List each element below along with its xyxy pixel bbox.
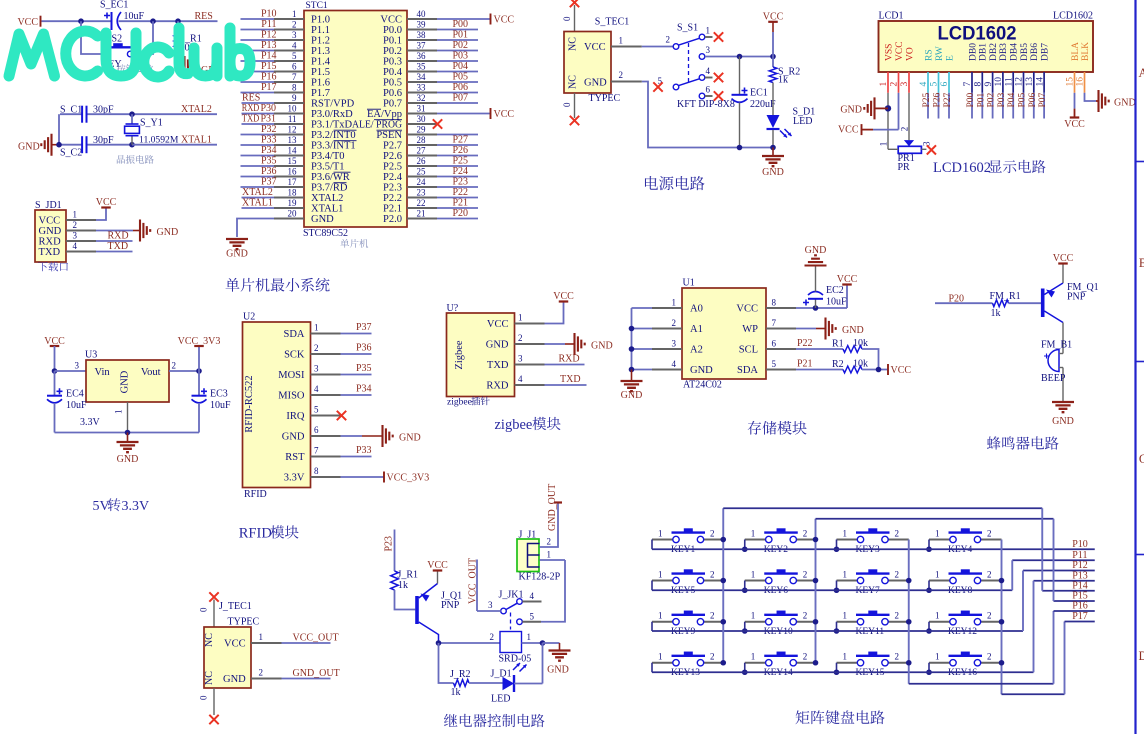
svg-text:LCD1602: LCD1602 (938, 24, 1017, 45)
svg-text:EA/Vpp: EA/Vpp (367, 109, 402, 120)
svg-text:DB1: DB1 (979, 43, 989, 61)
svg-text:P3.3/INT1: P3.3/INT1 (311, 141, 356, 152)
svg-text:VCC: VCC (224, 639, 246, 650)
svg-text:P0.3: P0.3 (383, 57, 402, 68)
svg-text:P2.1: P2.1 (383, 204, 402, 215)
svg-text:P02: P02 (452, 40, 468, 51)
svg-text:1: 1 (751, 611, 756, 621)
svg-text:26: 26 (417, 156, 427, 166)
svg-text:4: 4 (292, 40, 297, 50)
svg-text:3: 3 (73, 231, 78, 241)
svg-text:GND: GND (117, 454, 139, 465)
svg-text:P25: P25 (452, 156, 468, 167)
svg-text:14: 14 (288, 145, 298, 155)
svg-text:9: 9 (292, 93, 297, 103)
svg-text:B: B (1139, 256, 1144, 270)
svg-text:1k: 1k (451, 687, 461, 698)
svg-text:1: 1 (314, 323, 319, 333)
svg-text:1: 1 (878, 142, 888, 147)
svg-text:P2.0: P2.0 (383, 214, 402, 225)
svg-text:2: 2 (987, 611, 992, 621)
svg-text:P36: P36 (356, 343, 372, 354)
svg-text:VCC: VCC (736, 304, 758, 315)
svg-text:1: 1 (73, 210, 78, 220)
svg-text:34: 34 (417, 72, 427, 82)
svg-text:EC2: EC2 (826, 285, 844, 296)
svg-text:P1.0: P1.0 (311, 15, 330, 26)
svg-text:VCC: VCC (838, 125, 859, 136)
svg-text:1: 1 (658, 528, 663, 538)
svg-text:0: 0 (562, 102, 572, 107)
svg-text:7: 7 (963, 82, 973, 87)
svg-text:P2.3: P2.3 (383, 183, 402, 194)
svg-text:12: 12 (1015, 77, 1025, 87)
svg-text:6: 6 (706, 85, 711, 95)
svg-text:2: 2 (672, 318, 677, 328)
svg-text:P21: P21 (797, 359, 813, 370)
svg-text:P3.2/INT0: P3.2/INT0 (311, 130, 356, 141)
svg-text:P17: P17 (1072, 611, 1088, 622)
svg-text:KEY11: KEY11 (856, 627, 885, 637)
svg-text:KFT DIP-8X8: KFT DIP-8X8 (677, 99, 735, 110)
svg-text:DB3: DB3 (999, 43, 1009, 61)
svg-text:zigbee: zigbee (447, 398, 472, 408)
svg-text:P20: P20 (452, 208, 468, 219)
svg-text:IRQ: IRQ (286, 411, 305, 422)
svg-text:WP: WP (742, 324, 758, 335)
svg-text:XTAL2: XTAL2 (242, 187, 273, 198)
svg-text:2: 2 (895, 611, 900, 621)
svg-text:2: 2 (172, 361, 177, 371)
svg-text:LED: LED (491, 694, 510, 705)
svg-text:AT24C02: AT24C02 (683, 380, 722, 391)
svg-text:1: 1 (751, 569, 756, 579)
svg-text:1: 1 (547, 550, 552, 560)
svg-text:13: 13 (1025, 77, 1035, 87)
svg-text:3: 3 (706, 45, 711, 55)
svg-text:11.0592M: 11.0592M (139, 135, 179, 146)
svg-text:25: 25 (417, 166, 427, 176)
svg-text:P03: P03 (997, 92, 1007, 107)
svg-text:18: 18 (288, 187, 298, 197)
svg-text:P26: P26 (452, 145, 468, 156)
svg-text:1: 1 (259, 632, 264, 642)
svg-text:GND: GND (805, 245, 827, 256)
svg-text:7: 7 (292, 72, 297, 82)
svg-text:P35: P35 (261, 156, 277, 167)
svg-text:NC: NC (204, 671, 215, 685)
svg-text:GND: GND (311, 214, 334, 225)
svg-text:XTAL1: XTAL1 (242, 198, 273, 209)
svg-text:XTAL2: XTAL2 (311, 193, 343, 204)
svg-text:VCC: VCC (1064, 119, 1085, 130)
svg-text:U1: U1 (683, 278, 695, 289)
svg-text:GND: GND (39, 226, 62, 237)
svg-text:1: 1 (658, 569, 663, 579)
svg-text:A0: A0 (690, 304, 703, 315)
svg-text:7: 7 (314, 446, 319, 456)
svg-text:0: 0 (562, 16, 572, 21)
svg-text:39: 39 (417, 19, 427, 29)
svg-text:30: 30 (417, 114, 427, 124)
svg-text:GND: GND (18, 142, 40, 153)
svg-text:RES: RES (195, 11, 213, 22)
svg-text:A2: A2 (690, 345, 703, 356)
svg-text:2: 2 (803, 528, 808, 538)
svg-text:STC1: STC1 (306, 1, 328, 11)
svg-text:NC: NC (568, 75, 579, 89)
svg-text:BLA: BLA (1071, 42, 1081, 61)
svg-text:KEY9: KEY9 (671, 627, 696, 637)
svg-text:P3.4/T0: P3.4/T0 (311, 151, 345, 162)
svg-text:4: 4 (706, 66, 711, 76)
svg-text:NC: NC (204, 633, 215, 647)
svg-text:3: 3 (292, 30, 297, 40)
svg-text:24: 24 (417, 177, 427, 187)
svg-text:1: 1 (843, 528, 848, 538)
svg-text:1: 1 (879, 82, 889, 87)
svg-text:2: 2 (803, 652, 808, 662)
svg-text:6: 6 (314, 425, 319, 435)
svg-text:P2.7: P2.7 (383, 141, 402, 152)
svg-text:P15: P15 (261, 61, 277, 72)
svg-text:10uF: 10uF (210, 400, 231, 411)
svg-text:6: 6 (940, 82, 950, 87)
svg-text:P1.2: P1.2 (311, 36, 330, 47)
svg-text:P01: P01 (976, 92, 986, 107)
svg-text:2: 2 (987, 569, 992, 579)
svg-text:SCL: SCL (739, 345, 758, 356)
svg-text:1: 1 (935, 611, 940, 621)
svg-text:XTAL2: XTAL2 (181, 104, 212, 115)
svg-text:DB4: DB4 (1010, 43, 1020, 61)
svg-text:2: 2 (895, 528, 900, 538)
svg-text:RXD: RXD (486, 381, 509, 392)
svg-text:P04: P04 (1007, 92, 1017, 107)
svg-text:8: 8 (974, 82, 984, 87)
svg-text:10k: 10k (853, 359, 868, 370)
svg-text:TXD: TXD (108, 241, 129, 252)
svg-text:33: 33 (417, 82, 427, 92)
svg-text:RFID: RFID (239, 526, 272, 542)
svg-text:GND: GND (547, 665, 569, 676)
svg-text:2: 2 (292, 19, 297, 29)
svg-text:RW: RW (935, 46, 945, 61)
svg-text:GND: GND (1114, 98, 1136, 109)
svg-text:VCC: VCC (1053, 253, 1074, 264)
svg-text:Zigbee: Zigbee (454, 340, 465, 369)
svg-text:P35: P35 (356, 363, 372, 374)
svg-text:P31: P31 (260, 114, 276, 125)
svg-text:SCK: SCK (284, 350, 305, 361)
svg-text:P34: P34 (261, 145, 277, 156)
svg-text:DB2: DB2 (989, 43, 999, 61)
svg-text:1: 1 (935, 569, 940, 579)
svg-text:TXD: TXD (560, 374, 581, 385)
svg-text:P22: P22 (797, 338, 813, 349)
svg-text:ALE/ PROG: ALE/ PROG (352, 120, 402, 131)
svg-text:P34: P34 (356, 384, 372, 395)
svg-text:1: 1 (935, 528, 940, 538)
svg-text:VCC: VCC (39, 216, 61, 227)
svg-text:2: 2 (710, 652, 715, 662)
svg-text:3.3V: 3.3V (80, 417, 101, 428)
svg-text:P2.6: P2.6 (383, 151, 402, 162)
svg-text:A: A (1138, 66, 1144, 80)
svg-text:VCC: VCC (487, 319, 509, 330)
svg-text:P25: P25 (922, 92, 932, 107)
svg-text:9: 9 (984, 82, 994, 87)
svg-text:1: 1 (843, 569, 848, 579)
svg-text:TXD: TXD (487, 360, 509, 371)
svg-text:1: 1 (843, 652, 848, 662)
svg-text:4: 4 (518, 374, 523, 384)
svg-text:40: 40 (417, 9, 427, 19)
svg-text:XTAL1: XTAL1 (311, 204, 343, 215)
svg-text:21: 21 (417, 208, 426, 218)
svg-text:1: 1 (658, 611, 663, 621)
svg-text:R1: R1 (832, 339, 844, 350)
svg-text:5: 5 (930, 82, 940, 87)
svg-text:8: 8 (772, 298, 777, 308)
svg-text:1: 1 (706, 26, 711, 36)
svg-text:17: 17 (288, 177, 298, 187)
svg-text:10: 10 (288, 103, 298, 113)
svg-text:VCC: VCC (494, 15, 515, 26)
svg-text:C: C (1139, 452, 1144, 466)
svg-text:GND: GND (1052, 416, 1074, 427)
svg-text:3: 3 (518, 354, 523, 364)
svg-text:MISO: MISO (278, 391, 305, 402)
svg-text:J_R1: J_R1 (398, 570, 419, 581)
svg-text:2: 2 (710, 528, 715, 538)
svg-text:2: 2 (987, 652, 992, 662)
svg-text:8: 8 (292, 82, 297, 92)
svg-text:1: 1 (935, 652, 940, 662)
svg-text:2: 2 (895, 569, 900, 579)
svg-text:GND_OUT: GND_OUT (547, 484, 558, 531)
svg-text:5: 5 (292, 51, 297, 61)
svg-text:P0.5: P0.5 (383, 78, 402, 89)
svg-text:BLK: BLK (1081, 42, 1091, 61)
svg-text:RFID-RC522: RFID-RC522 (244, 375, 255, 432)
svg-text:3: 3 (672, 339, 677, 349)
svg-text:7: 7 (772, 318, 777, 328)
svg-text:P1.1: P1.1 (311, 25, 330, 36)
svg-text:P04: P04 (452, 61, 468, 72)
svg-text:EC3: EC3 (210, 389, 228, 400)
svg-text:P10: P10 (261, 9, 277, 20)
svg-text:U3: U3 (85, 350, 97, 361)
svg-text:P01: P01 (452, 30, 468, 41)
svg-text:RXD: RXD (108, 231, 129, 242)
svg-text:P2.4: P2.4 (383, 172, 403, 183)
svg-text:3: 3 (75, 361, 80, 371)
svg-text:VCC: VCC (494, 109, 515, 120)
svg-text:3.3V: 3.3V (122, 499, 150, 514)
svg-text:D: D (1138, 649, 1144, 663)
svg-text:38: 38 (417, 30, 427, 40)
svg-text:U2: U2 (243, 312, 255, 323)
svg-text:S_Y1: S_Y1 (140, 118, 163, 129)
svg-text:32: 32 (417, 93, 426, 103)
svg-text:1: 1 (527, 632, 532, 642)
svg-text:P14: P14 (261, 51, 277, 62)
svg-text:VCC: VCC (891, 365, 912, 376)
svg-text:2: 2 (666, 35, 671, 45)
svg-text:P3.0/RxD: P3.0/RxD (311, 109, 353, 120)
svg-text:P23: P23 (452, 177, 468, 188)
svg-text:4: 4 (672, 359, 677, 369)
svg-text:RES: RES (242, 93, 260, 104)
svg-text:GND: GND (120, 370, 131, 393)
svg-text:4: 4 (919, 82, 929, 87)
svg-text:P05: P05 (452, 72, 468, 83)
svg-text:10uF: 10uF (66, 400, 87, 411)
svg-text:GND: GND (621, 390, 643, 401)
svg-text:RS: RS (924, 49, 934, 61)
svg-text:RST: RST (285, 452, 305, 463)
svg-text:VCC: VCC (380, 15, 402, 26)
svg-text:P16: P16 (1072, 601, 1088, 612)
svg-text:PR: PR (898, 162, 911, 173)
svg-text:P2.5: P2.5 (383, 162, 402, 173)
svg-text:GND: GND (157, 227, 179, 238)
svg-text:RXD: RXD (39, 237, 62, 248)
svg-text:P3.6/WR: P3.6/WR (311, 172, 350, 183)
svg-text:DB6: DB6 (1030, 43, 1040, 61)
svg-text:2: 2 (619, 70, 624, 80)
svg-text:P27: P27 (943, 92, 953, 107)
svg-text:1: 1 (751, 652, 756, 662)
svg-text:LCD1602: LCD1602 (1053, 11, 1093, 22)
svg-text:P00: P00 (966, 92, 976, 107)
svg-text:10uF: 10uF (826, 297, 847, 308)
svg-text:EC1: EC1 (750, 88, 768, 99)
svg-text:2: 2 (899, 127, 909, 132)
svg-text:P17: P17 (261, 82, 277, 93)
svg-text:5: 5 (314, 405, 319, 415)
svg-text:1: 1 (751, 528, 756, 538)
svg-text:6: 6 (292, 61, 297, 71)
svg-text:5V: 5V (93, 499, 110, 514)
svg-text:2: 2 (73, 220, 78, 230)
svg-text:37: 37 (417, 40, 427, 50)
svg-text:P0.2: P0.2 (383, 46, 402, 57)
svg-text:0: 0 (199, 695, 209, 700)
svg-text:3: 3 (488, 600, 493, 610)
svg-text:GND: GND (690, 365, 713, 376)
svg-text:P1.5: P1.5 (311, 67, 330, 78)
svg-text:P13: P13 (261, 40, 277, 51)
svg-text:2: 2 (803, 569, 808, 579)
svg-text:2: 2 (518, 333, 523, 343)
svg-text:VSS: VSS (884, 44, 894, 61)
svg-text:Vout: Vout (141, 367, 161, 378)
svg-text:11: 11 (1004, 77, 1014, 86)
svg-text:P37: P37 (356, 322, 372, 333)
svg-text:VCC: VCC (584, 42, 606, 53)
svg-text:22: 22 (417, 198, 426, 208)
svg-text:J_TEC1: J_TEC1 (219, 601, 252, 612)
svg-text:PNP: PNP (1067, 292, 1086, 303)
svg-text:2: 2 (710, 611, 715, 621)
svg-text:DB0: DB0 (968, 43, 978, 61)
svg-text:R2: R2 (832, 359, 844, 370)
svg-text:1: 1 (292, 9, 297, 19)
svg-text:VCC: VCC (96, 197, 117, 208)
svg-text:3: 3 (922, 141, 932, 146)
svg-text:P1.7: P1.7 (311, 88, 330, 99)
svg-text:11: 11 (288, 114, 297, 124)
svg-text:SDA: SDA (737, 365, 758, 376)
svg-text:GND: GND (486, 340, 509, 351)
svg-text:P11: P11 (261, 19, 276, 30)
svg-text:TXD: TXD (242, 114, 259, 125)
svg-text:P26: P26 (933, 92, 943, 107)
svg-text:J_D1: J_D1 (491, 669, 512, 680)
svg-text:15: 15 (288, 156, 298, 166)
svg-text:DB7: DB7 (1040, 43, 1050, 61)
svg-text:P27: P27 (452, 135, 468, 146)
svg-text:4: 4 (314, 384, 319, 394)
svg-text:P1.3: P1.3 (311, 46, 330, 57)
svg-text:1: 1 (114, 410, 124, 415)
svg-text:FM_B1: FM_B1 (1041, 340, 1072, 351)
svg-text:E: E (945, 55, 955, 61)
svg-text:VCC: VCC (17, 17, 38, 28)
svg-text:27: 27 (417, 145, 427, 155)
svg-text:P16: P16 (261, 72, 277, 83)
svg-text:LED: LED (793, 116, 812, 127)
svg-text:23: 23 (417, 187, 427, 197)
svg-text:0: 0 (199, 607, 209, 612)
svg-text:16: 16 (1076, 77, 1086, 87)
svg-text:RST/VPD: RST/VPD (311, 99, 355, 110)
svg-text:31: 31 (417, 103, 426, 113)
svg-text:15: 15 (1066, 77, 1076, 87)
svg-text:1: 1 (843, 611, 848, 621)
svg-text:14: 14 (1035, 77, 1045, 87)
svg-text:VCC: VCC (895, 41, 905, 61)
svg-text:KEY10: KEY10 (764, 627, 793, 637)
svg-text:BEEP: BEEP (1041, 373, 1066, 384)
svg-text:P0.6: P0.6 (383, 88, 402, 99)
svg-text:3: 3 (900, 82, 910, 87)
svg-text:P0.0: P0.0 (383, 25, 402, 36)
svg-text:1: 1 (518, 313, 523, 323)
svg-text:GND: GND (842, 325, 864, 336)
svg-text:P07: P07 (452, 93, 468, 104)
svg-text:LCD1: LCD1 (879, 11, 904, 22)
svg-text:VCC_3V3: VCC_3V3 (178, 336, 221, 347)
svg-text:TYPEC: TYPEC (589, 93, 621, 104)
svg-text:P3.7/RD: P3.7/RD (311, 183, 348, 194)
svg-text:P33: P33 (261, 135, 277, 146)
svg-text:220uF: 220uF (750, 99, 776, 110)
svg-text:2: 2 (803, 611, 808, 621)
svg-text:P1.6: P1.6 (311, 78, 330, 89)
svg-text:P03: P03 (452, 51, 468, 62)
svg-text:NC: NC (568, 37, 579, 51)
svg-text:4: 4 (530, 591, 535, 601)
svg-text:KEY12: KEY12 (948, 627, 977, 637)
svg-text:VCC: VCC (837, 274, 858, 285)
svg-text:P12: P12 (261, 30, 277, 41)
svg-text:S_EC1: S_EC1 (100, 0, 128, 11)
svg-text:10uF: 10uF (124, 11, 145, 22)
svg-text:S_S1: S_S1 (677, 23, 698, 34)
